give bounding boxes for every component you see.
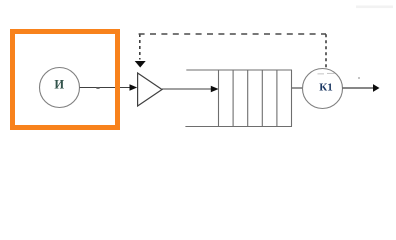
channel circle К1 [303, 69, 343, 109]
queue cell divider 5 [276, 70, 278, 127]
stray dot [358, 77, 360, 79]
faint ghost smudge top right [356, 6, 393, 9]
feedback dotted riser at channel [325, 34, 327, 67]
feedback dashed top run [139, 33, 326, 35]
queue cell divider 3 [247, 70, 249, 127]
wire: amplifier to queue [162, 88, 213, 90]
svg-text:И: И [54, 78, 64, 92]
ghost dash left inside channel [318, 73, 325, 74]
highlight box [13, 32, 118, 128]
wire blemish [96, 87, 99, 89]
feedback dotted riser at amplifier [139, 34, 141, 60]
queue right wall [291, 70, 293, 127]
svg-text:К1: К1 [319, 82, 332, 94]
queue bottom rail [185, 126, 292, 128]
queue cell divider 1 [218, 70, 220, 127]
ghost dash right inside channel [327, 73, 335, 74]
arrowhead into queue [211, 86, 219, 93]
amplifier triangle [138, 73, 162, 106]
wire: channel output [343, 87, 374, 89]
queue top rail [186, 69, 292, 71]
arrowhead into amplifier [130, 84, 138, 90]
queue cell divider 4 [261, 70, 263, 127]
wire: source to amplifier [80, 87, 132, 89]
wire: queue to channel [292, 87, 303, 89]
output arrowhead [373, 84, 380, 92]
source circle И [40, 68, 80, 108]
queue cell divider 2 [232, 70, 234, 127]
feedback arrowhead into amplifier top [135, 61, 146, 68]
